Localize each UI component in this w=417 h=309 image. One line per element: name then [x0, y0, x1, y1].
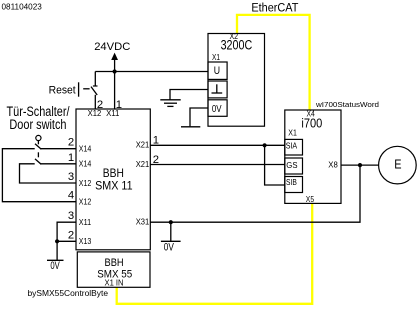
svg-text:X13: X13: [79, 237, 92, 246]
connector X1 cell SIB: [285, 177, 303, 193]
pin name X14 row1: [79, 144, 92, 153]
pin name X13 row6: [79, 237, 92, 246]
power supply 3200C box: [208, 32, 265, 126]
wire X14 pin2 to door switch: [41, 148, 76, 150]
wire X21 pin2 to i700 GS: [150, 164, 284, 166]
pin number 2 at X14: [68, 137, 74, 149]
svg-text:X1: X1: [288, 129, 297, 138]
wire EtherCAT yellow bus X2 to X4: [237, 15, 310, 110]
wire earth cell to earth symbol: [170, 90, 208, 100]
svg-text:SMX 11: SMX 11: [95, 179, 133, 193]
connector X1 cell SIA: [285, 139, 303, 155]
pin name X31: [136, 217, 150, 226]
switch S1 Reset label: [49, 85, 77, 97]
svg-text:X1 IN: X1 IN: [105, 278, 124, 288]
net label wI700StatusWord: [315, 100, 379, 109]
svg-text:2: 2: [68, 229, 74, 241]
svg-text:X1: X1: [212, 53, 220, 62]
svg-text:X21: X21: [136, 141, 150, 150]
svg-text:bySMX55ControlByte: bySMX55ControlByte: [28, 289, 109, 298]
junction dot 24VDC rail X11: [113, 69, 117, 73]
pin name X11 row5: [79, 218, 92, 227]
wire X8 to motor: [341, 164, 379, 166]
wire X31 to X8 riser: [150, 165, 360, 222]
door switch label: [7, 104, 70, 132]
title text 081104023: [2, 2, 43, 11]
switch S1 Reset NO contact: [91, 72, 98, 110]
wire 24VDC rail: [95, 71, 208, 73]
pin number 3 at X12: [68, 171, 74, 183]
connector X1 cell 0V: [208, 100, 227, 117]
pin number 2 at X21: [153, 154, 159, 166]
junction dot X13 X11 ground: [55, 239, 59, 243]
wire door switch loop to X12 pin3: [20, 164, 77, 183]
motor E: [379, 146, 417, 184]
svg-text:Door switch: Door switch: [9, 117, 66, 132]
wire X11 pin3 to ground: [57, 222, 76, 260]
svg-text:X2: X2: [230, 32, 239, 41]
wire 0V cell to 0V bar: [190, 108, 208, 126]
switch S1 Reset pushbutton actuator: [79, 82, 90, 96]
svg-text:EtherCAT: EtherCAT: [251, 0, 299, 14]
svg-text:X14: X14: [79, 160, 92, 169]
pin name X12 row3: [79, 179, 92, 188]
svg-text:3: 3: [68, 171, 74, 183]
svg-text:U: U: [214, 65, 220, 77]
wire X21 pin1 to i700 SIA: [150, 144, 284, 146]
pin name X14 row2: [79, 160, 92, 169]
pin name X12 row4: [79, 198, 92, 207]
pin number 3 at X11: [68, 210, 74, 222]
pin name X12 top: [88, 109, 102, 118]
svg-text:081104023: 081104023: [2, 2, 43, 11]
pin number 2 at X13: [68, 229, 74, 241]
svg-text:X4: X4: [307, 109, 316, 118]
wire X31 ground drop: [170, 222, 172, 241]
svg-text:BBH: BBH: [105, 257, 124, 269]
svg-text:X12: X12: [79, 198, 92, 207]
door switch S2 contact 2 blade: [35, 159, 41, 165]
wire X13 pin2 to ground junction: [57, 240, 76, 242]
door switch S2 contact 1 blade: [35, 144, 41, 150]
svg-text:X11: X11: [106, 109, 120, 118]
wire SIA branch to SIB: [265, 145, 285, 185]
svg-text:GS: GS: [286, 160, 297, 170]
wire EtherCAT yellow bus X1IN to X5: [117, 203, 313, 303]
svg-text:X12: X12: [79, 179, 92, 188]
svg-text:E: E: [394, 157, 401, 171]
connector X1 cell U: [208, 62, 227, 79]
svg-text:24VDC: 24VDC: [94, 41, 130, 53]
svg-text:X8: X8: [328, 161, 338, 170]
pin name X11 top: [106, 109, 120, 118]
connector X1 cell earth: [208, 81, 227, 98]
svg-text:wI700StatusWord: wI700StatusWord: [315, 100, 379, 109]
svg-text:X11: X11: [79, 218, 92, 227]
svg-text:SIA: SIA: [286, 140, 298, 150]
earth ground symbol: [160, 100, 180, 107]
svg-text:2: 2: [68, 137, 74, 149]
svg-text:X21: X21: [136, 160, 150, 169]
svg-text:X31: X31: [136, 217, 150, 226]
ground 0V symbol middle: [161, 241, 181, 253]
svg-text:0V: 0V: [164, 242, 175, 254]
servo drive U3 i700 box: [285, 109, 341, 204]
safety controller U2 BBH SMX55 box: [77, 252, 150, 288]
connector X1 cell GS: [285, 158, 303, 174]
wire X11 pin from rail: [114, 72, 116, 110]
junction dot X8: [358, 163, 362, 167]
svg-text:SIB: SIB: [286, 177, 297, 187]
svg-text:Reset: Reset: [49, 85, 77, 97]
door switch S2 circle actuator: [36, 135, 41, 144]
pin number 1 at X11: [116, 99, 122, 111]
ground 0V symbol left: [47, 260, 64, 272]
net label bySMX55ControlByte: [28, 289, 109, 298]
svg-text:X14: X14: [79, 144, 92, 153]
safety controller U1 BBH SMX11 box: [76, 109, 150, 250]
svg-text:4: 4: [68, 190, 74, 202]
svg-text:X5: X5: [306, 195, 315, 204]
door switch S2 mechanical link: [37, 152, 39, 157]
wire X14 pin1 to door switch: [41, 163, 76, 165]
pin name X21 row2: [136, 160, 150, 169]
ground 0V bar under 3200C: [181, 126, 200, 128]
power supply 24VDC arrow symbol: [111, 53, 118, 72]
net label EtherCAT: [251, 0, 299, 14]
svg-text:1: 1: [68, 152, 74, 164]
pin number 1 at X14: [68, 152, 74, 164]
junction dot SIA branch: [263, 143, 267, 147]
pin number 1 at X21: [153, 135, 159, 147]
power supply 24VDC label: [94, 41, 130, 53]
svg-text:0V: 0V: [50, 260, 60, 272]
pin number 4 at X12: [68, 190, 74, 202]
svg-text:3: 3: [68, 210, 74, 222]
junction dot X31 ground: [169, 220, 173, 224]
pin number 2 at X12: [97, 99, 103, 111]
wire door switch loop to X12 pin4: [2, 149, 76, 202]
pin name X21 row1: [136, 141, 150, 150]
svg-text:X12: X12: [88, 109, 102, 118]
svg-text:0V: 0V: [212, 104, 222, 115]
